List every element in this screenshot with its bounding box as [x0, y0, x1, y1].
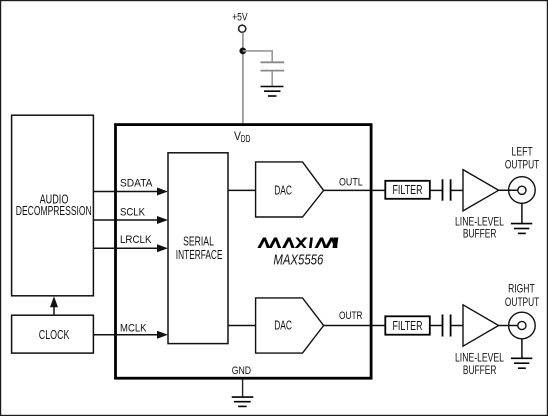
svg-text:DECOMPRESSION: DECOMPRESSION	[16, 203, 92, 218]
svg-text:MCLK: MCLK	[120, 323, 147, 335]
coupling capacitor L	[442, 179, 444, 200]
svg-text:DAC: DAC	[274, 182, 292, 197]
net OUTR	[324, 325, 386, 327]
capacitor C1 supply bypass	[261, 61, 285, 63]
svg-text:DD: DD	[241, 133, 251, 145]
wire buffer R to jack R	[499, 325, 518, 327]
svg-text:INTERFACE: INTERFACE	[176, 247, 223, 262]
svg-text:SDATA: SDATA	[120, 178, 153, 190]
block audio decompression	[12, 115, 94, 296]
DAC L	[256, 162, 324, 217]
wire buffer L to jack L	[499, 189, 518, 191]
coupling capacitor R	[442, 315, 444, 337]
svg-text:+5V: +5V	[232, 12, 248, 24]
block serial interface	[168, 153, 228, 344]
logo MAXIM	[257, 238, 338, 249]
wire MCLK	[93, 334, 158, 336]
op-amp line-level buffer R	[463, 305, 499, 346]
wire junction to bypass capacitor	[243, 51, 272, 62]
svg-text:MAX5556: MAX5556	[273, 253, 323, 269]
connector J1 left output	[509, 177, 536, 204]
supply terminal circle	[239, 25, 246, 32]
wire jack L to ground	[521, 203, 523, 223]
wire GND pin to ground	[242, 380, 244, 397]
wire SDATA	[93, 191, 158, 193]
wire +5V terminal to VDD pin	[242, 33, 244, 124]
svg-text:OUTL: OUTL	[339, 177, 363, 189]
connector J2 right output	[509, 312, 536, 339]
op-amp line-level buffer L	[463, 170, 499, 211]
svg-text:GND: GND	[232, 365, 251, 377]
wire coupling cap R to buffer R	[451, 325, 463, 327]
wire capacitor to ground	[271, 71, 273, 86]
svg-text:OUTR: OUTR	[339, 310, 363, 322]
junction dot	[239, 48, 246, 55]
svg-text:FILTER: FILTER	[393, 183, 423, 197]
svg-text:RIGHT: RIGHT	[508, 283, 535, 296]
svg-text:OUTPUT: OUTPUT	[505, 159, 539, 172]
wire serial interface to DAC L	[228, 189, 256, 191]
wire LRCLK	[93, 247, 158, 249]
ground GND pin	[232, 397, 254, 406]
svg-text:CLOCK: CLOCK	[39, 327, 70, 342]
wire jack R to ground	[521, 339, 523, 358]
svg-text:OUTPUT: OUTPUT	[505, 296, 539, 309]
block clock	[12, 315, 94, 353]
wire clock to audio decompression	[53, 306, 55, 315]
svg-text:SCLK: SCLK	[120, 207, 145, 219]
svg-text:BUFFER: BUFFER	[463, 363, 497, 377]
net OUTL	[324, 189, 386, 191]
filter R	[385, 316, 430, 334]
filter L	[385, 181, 430, 199]
svg-text:LRCLK: LRCLK	[120, 234, 152, 246]
ground right output	[511, 358, 532, 368]
wire serial interface to DAC R	[228, 325, 256, 327]
svg-text:FILTER: FILTER	[393, 319, 423, 333]
wire filter L to coupling cap L	[430, 189, 442, 191]
svg-text:BUFFER: BUFFER	[463, 227, 497, 241]
wire filter R to coupling cap R	[430, 325, 442, 327]
wire coupling cap L to buffer L	[451, 189, 463, 191]
svg-text:LEFT: LEFT	[512, 145, 533, 158]
ground bypass capacitor	[261, 87, 284, 97]
IC U1 MAX5556 boundary	[116, 125, 372, 379]
wire SCLK	[93, 219, 158, 221]
ground left output	[511, 224, 532, 234]
svg-text:DAC: DAC	[274, 317, 292, 332]
DAC R	[256, 298, 324, 353]
